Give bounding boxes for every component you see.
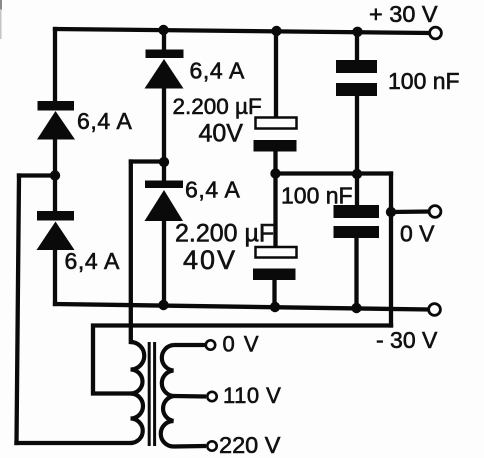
capacitor C4 bottom plate xyxy=(334,226,380,238)
svg-text:40V: 40V xyxy=(183,245,237,275)
wire C1 bottom lead xyxy=(273,152,277,174)
capacitor C4 100nF top plate xyxy=(334,205,380,218)
capacitor C3 100nF top plate xyxy=(336,60,377,73)
svg-text:40V: 40V xyxy=(199,120,244,148)
terminal primary 110V xyxy=(207,392,216,401)
terminal primary 220V xyxy=(207,441,216,450)
svg-text:0 V: 0 V xyxy=(223,332,261,357)
wire bottom to transformer winding xyxy=(17,441,131,445)
svg-text:2.200 µF: 2.200 µF xyxy=(175,220,274,248)
svg-text:0 V: 0 V xyxy=(400,221,435,247)
svg-text:110 V: 110 V xyxy=(223,383,281,408)
wire transformer primary-top column xyxy=(129,162,133,343)
capacitor C1 2200uF 40V positive plate (hollow) xyxy=(256,118,297,129)
node junction AC1 D3/D4 xyxy=(159,157,169,167)
wire 0V return line to transformer xyxy=(93,326,391,394)
svg-text:100 nF: 100 nF xyxy=(281,183,353,209)
node junction 0V branch / terminal lead xyxy=(386,207,396,217)
wire between D1 and D2 xyxy=(53,139,57,211)
wire 0V rail xyxy=(276,171,392,175)
node junction 0V rail / C1-C2 xyxy=(270,168,280,178)
wire C4 top lead xyxy=(355,174,359,206)
wire top +30V rail xyxy=(55,29,429,33)
terminal primary 0V xyxy=(206,340,215,349)
wire -30V bottom rail xyxy=(55,304,428,310)
wire 0V right branch vertical xyxy=(389,174,393,326)
wire C2 top lead xyxy=(273,174,277,248)
wire C2 bottom lead xyxy=(272,280,276,307)
diode D2 6,4 A xyxy=(37,211,75,250)
node junction top rail / D3 column xyxy=(158,25,168,35)
wire from D4 down to -30V rail xyxy=(162,221,166,305)
terminal 0V output xyxy=(429,206,441,218)
wire primary tap 110V xyxy=(174,394,207,399)
wire AC2 from node at left column to far-left xyxy=(19,173,55,177)
wire jog from AC1 node to transformer column xyxy=(131,159,164,163)
svg-text:2.200 µF: 2.200 µF xyxy=(173,94,262,119)
capacitor C2 2200uF 40V positive plate (hollow) xyxy=(256,247,297,258)
transformer T1 secondary winding (left) xyxy=(131,342,145,443)
node junction top rail / C1 column xyxy=(271,26,281,36)
wire D3 column from top rail xyxy=(162,31,166,50)
wire left column from top rail down to D1 xyxy=(53,29,57,101)
wire C1 column from top rail xyxy=(274,31,278,118)
node junction -30V rail / C4 xyxy=(351,303,361,313)
capacitor C2 negative plate xyxy=(253,269,296,281)
wire primary tap 0V xyxy=(174,343,206,347)
svg-text:6,4 A: 6,4 A xyxy=(190,58,245,84)
wire from D2 down to -30V rail xyxy=(53,250,57,304)
wire 0V terminal lead xyxy=(391,209,429,214)
node junction left column AC2 xyxy=(50,170,60,180)
svg-text:- 30 V: - 30 V xyxy=(376,327,438,353)
node junction -30V rail / D4 column xyxy=(158,300,168,310)
diode D4 6,4 A xyxy=(145,181,184,222)
node junction -30V rail / C2 xyxy=(270,302,280,312)
capacitor C1 negative plate xyxy=(254,140,297,152)
capacitor C3 bottom plate xyxy=(336,83,377,96)
svg-text:6,4 A: 6,4 A xyxy=(185,177,240,203)
wire between D3 and D4 xyxy=(162,89,166,181)
wire C4 bottom lead xyxy=(354,238,358,308)
wire C3 column from top rail xyxy=(355,31,359,60)
svg-text:6,4 A: 6,4 A xyxy=(77,108,132,134)
transformer T1 primary winding (right) xyxy=(161,345,174,447)
node junction top rail / C3 column xyxy=(352,27,362,37)
scan artifact left edge xyxy=(0,0,2,10)
terminal +30V output xyxy=(430,27,442,39)
diode D1 6,4 A xyxy=(37,101,75,140)
node junction 0V rail / C3-C4 xyxy=(352,169,362,179)
terminal -30V output xyxy=(429,304,441,316)
transformer T1 core xyxy=(149,342,154,446)
wire far-left vertical down xyxy=(17,176,20,444)
svg-text:100 nF: 100 nF xyxy=(388,68,460,94)
svg-text:6,4 A: 6,4 A xyxy=(65,248,120,274)
wire C3 bottom to 0V rail xyxy=(355,96,359,174)
svg-text:+ 30 V: + 30 V xyxy=(369,1,438,27)
svg-text:220 V: 220 V xyxy=(219,432,281,458)
diode D3 6,4 A xyxy=(145,50,184,89)
wire primary tap 220V xyxy=(174,444,207,449)
